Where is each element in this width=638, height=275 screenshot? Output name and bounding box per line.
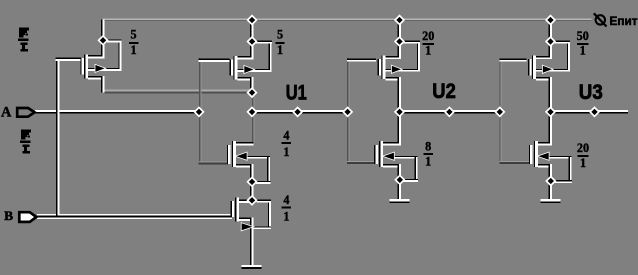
node M4 source xyxy=(395,37,404,46)
svg-text:1: 1 xyxy=(283,209,289,223)
node M8 source xyxy=(546,177,555,186)
wire input A net vertical (gate tap to M2 and M5) xyxy=(199,58,201,165)
node U2 input tap xyxy=(343,108,352,117)
transistor M4 (PMOS 20/1) bulk stub and substrate arrow xyxy=(385,66,420,73)
wire U3 output bus segment xyxy=(551,110,629,114)
transistor M8 (NMOS 20/1) bulk stub and substrate arrow xyxy=(538,153,571,160)
node Y on output bus xyxy=(248,108,257,117)
node marker on U3 output bus xyxy=(590,108,599,117)
svg-text:1: 1 xyxy=(131,43,137,57)
wire M6 gate lead (U2 NMOS gate) xyxy=(347,161,375,164)
value label 4/1 for M3 xyxy=(282,193,291,223)
node Y upper (PMOS drains) xyxy=(248,88,257,97)
svg-text:A: A xyxy=(1,105,12,121)
transistor M1 (PMOS 5/1) drain stub xyxy=(88,76,105,93)
node A junction xyxy=(195,108,204,117)
ground symbol (U2 stage) xyxy=(389,199,409,203)
transistor M4 (PMOS 20/1) channel bar xyxy=(381,56,385,80)
value label 8/1 for M6 xyxy=(423,140,433,169)
svg-text:1: 1 xyxy=(580,156,586,170)
transistor M6 (NMOS 8/1) gate bar xyxy=(374,145,378,164)
wire input B horizontal from port xyxy=(37,214,232,219)
svg-text:1: 1 xyxy=(277,43,283,57)
wire U1 output to U2 gates vertical xyxy=(347,58,349,164)
transistor M2 (PMOS 5/1) bulk stub and substrate arrow xyxy=(237,66,271,73)
value label 20/1 for M8 xyxy=(577,141,589,170)
node U3 output xyxy=(546,108,555,117)
wire M5 source to M3 drain xyxy=(250,182,253,201)
node M3 drain xyxy=(248,196,257,205)
transistor M3 (NMOS 4/1) gate bar xyxy=(231,201,235,217)
value label W/L (input transistor ratio) near A xyxy=(18,27,29,51)
transistor M3 bulk loop to drain node xyxy=(252,200,271,230)
transistor M8 (NMOS 20/1) gate bar xyxy=(529,145,533,164)
input port B symbol xyxy=(19,212,36,222)
svg-text:1: 1 xyxy=(580,43,586,57)
node marker on U1 output bus xyxy=(293,108,302,117)
wire VDD drop to M7 source node xyxy=(549,20,552,42)
transistor M4 (PMOS 20/1) bulk-to-source loop xyxy=(404,41,420,70)
transistor M7 (PMOS 50/1) drain stub xyxy=(536,77,552,112)
transistor M1 (PMOS 5/1) gate bar xyxy=(80,58,84,74)
wire M8 source to ground xyxy=(549,181,552,200)
transistor M6 (NMOS 8/1) drain stub xyxy=(383,112,401,145)
wire M2 gate lead xyxy=(198,59,229,62)
node VDD rail junction col4 xyxy=(546,16,555,25)
value label 4/1 for M5 xyxy=(282,129,291,159)
transistor M8 (NMOS 20/1) source stub xyxy=(538,164,552,181)
value label 5/1 for M2 xyxy=(275,27,284,57)
svg-text:4: 4 xyxy=(283,193,289,207)
wire VDD rail (top supply bus) xyxy=(103,18,592,21)
wire input A horizontal from port xyxy=(35,110,199,114)
node M7 source xyxy=(546,37,555,46)
svg-text:1: 1 xyxy=(425,154,431,168)
transistor M5 (NMOS 4/1) bulk stub and substrate arrow xyxy=(236,153,270,160)
svg-text:8: 8 xyxy=(425,140,431,154)
transistor M6 (NMOS 8/1) bulk loop xyxy=(404,157,418,182)
wire M1 gate lead xyxy=(56,57,81,60)
wire B net vertical to M1 gate xyxy=(56,57,59,215)
transistor M7 (PMOS 50/1) bulk-to-source loop xyxy=(555,41,570,70)
transistor M7 (PMOS 50/1) gate bar xyxy=(528,59,532,75)
transistor M8 (NMOS 20/1) bulk loop xyxy=(555,157,572,183)
transistor M2 (PMOS 5/1) gate bar xyxy=(230,59,234,75)
svg-text:1: 1 xyxy=(425,43,431,57)
node M6 source xyxy=(395,175,404,184)
transistor M2 (PMOS 5/1) bulk-to-source loop xyxy=(256,41,272,70)
transistor M6 (NMOS 8/1) bulk stub and substrate arrow xyxy=(384,153,418,160)
node VDD rail junction col3 xyxy=(395,16,404,25)
transistor M6 (NMOS 8/1) channel bar xyxy=(379,141,383,167)
transistor M4 (PMOS 20/1) drain stub xyxy=(385,77,401,112)
node marker on U2 output bus xyxy=(445,108,454,117)
node U3 input tap xyxy=(495,108,504,117)
wire U1 output bus segment xyxy=(252,110,348,114)
wire M7 gate lead xyxy=(499,58,526,61)
transistor M8 (NMOS 20/1) drain stub xyxy=(538,112,552,145)
svg-text:Епит: Епит xyxy=(610,16,638,28)
transistor M2 (PMOS 5/1) source stub xyxy=(237,42,253,60)
wire U2 output to U3 gates vertical xyxy=(499,58,501,164)
wire NAND output node Y horizontal (M1/M2 drains to node) xyxy=(104,89,252,93)
svg-text:U3: U3 xyxy=(579,80,603,104)
transistor M8 (NMOS 20/1) channel bar xyxy=(534,141,538,167)
ground symbol (NAND stage) xyxy=(242,265,262,269)
transistor M5 (NMOS 4/1) drain stub xyxy=(236,142,253,145)
value label W/L (input transistor ratio) near B xyxy=(20,129,31,153)
transistor M3 source stub xyxy=(239,218,253,267)
transistor M7 (PMOS 50/1) bulk stub and substrate arrow xyxy=(536,66,570,73)
wire M5 gate lead (A net to NMOS gate) xyxy=(198,161,228,164)
wire VDD drop to M4 source node xyxy=(398,20,401,42)
transistor M4 (PMOS 20/1) gate bar xyxy=(378,59,382,75)
value label 50/1 for M7 xyxy=(577,29,589,57)
transistor M6 (NMOS 8/1) source stub xyxy=(383,164,401,180)
svg-text:1: 1 xyxy=(283,145,289,159)
svg-text:20: 20 xyxy=(422,29,434,43)
svg-text:U2: U2 xyxy=(432,79,456,103)
svg-text:4: 4 xyxy=(283,129,289,143)
svg-text:U1: U1 xyxy=(286,81,307,105)
svg-text:5: 5 xyxy=(131,27,137,41)
wire M8 gate lead (U3 NMOS gate) xyxy=(499,161,529,164)
transistor M3 (NMOS 4/1) channel bar xyxy=(235,197,239,221)
transistor M3 drain stub xyxy=(239,199,253,202)
svg-text:5: 5 xyxy=(277,27,283,41)
power symbol (crossed circle) for Epit supply xyxy=(594,13,607,26)
transistor M3 bulk stub and substrate arrow xyxy=(242,223,253,230)
wire M6 source to ground xyxy=(398,180,401,200)
wire U2 output bus segment xyxy=(400,110,501,114)
value label 5/1 for M1 xyxy=(129,27,138,57)
transistor M5 (NMOS 4/1) bulk loop xyxy=(256,157,270,184)
transistor M1 (PMOS 5/1) channel bar xyxy=(84,55,88,79)
transistor M5 (NMOS 4/1) gate bar xyxy=(227,145,231,164)
transistor M5 (NMOS 4/1) source stub xyxy=(236,164,253,182)
transistor M5 (NMOS 4/1) channel bar xyxy=(232,141,236,167)
transistor M1 (PMOS 5/1) source stub xyxy=(88,40,105,58)
node VDD rail junction col2 xyxy=(248,16,257,25)
node U2 output xyxy=(395,108,404,117)
transistor M7 (PMOS 50/1) source stub xyxy=(536,42,552,60)
transistor M1 (PMOS 5/1) bulk-to-source loop xyxy=(107,40,121,70)
input port A symbol xyxy=(17,108,34,117)
value label 20/1 for M4 xyxy=(422,29,434,57)
wire M4 gate lead xyxy=(347,58,376,61)
svg-text:B: B xyxy=(4,208,13,223)
svg-text:50: 50 xyxy=(577,29,589,43)
svg-text:20: 20 xyxy=(577,141,589,155)
node M1 source at VDD xyxy=(99,36,108,45)
ground symbol (U3 stage) xyxy=(540,199,560,203)
transistor M7 (PMOS 50/1) channel bar xyxy=(532,56,536,80)
transistor M1 (PMOS 5/1) bulk stub and substrate arrow xyxy=(88,65,121,72)
wire node Y vertical to output bus and M5 drain xyxy=(252,93,254,143)
transistor M2 (PMOS 5/1) drain stub xyxy=(237,77,253,93)
wire VDD drop to M1 source node xyxy=(101,20,104,41)
transistor M2 (PMOS 5/1) channel bar xyxy=(233,56,237,80)
transistor M4 (PMOS 20/1) source stub xyxy=(385,42,401,60)
node M5 source / M3 drain upper xyxy=(248,177,257,186)
node M2 source xyxy=(248,37,257,46)
wire VDD drop to M2 source node xyxy=(250,20,253,42)
